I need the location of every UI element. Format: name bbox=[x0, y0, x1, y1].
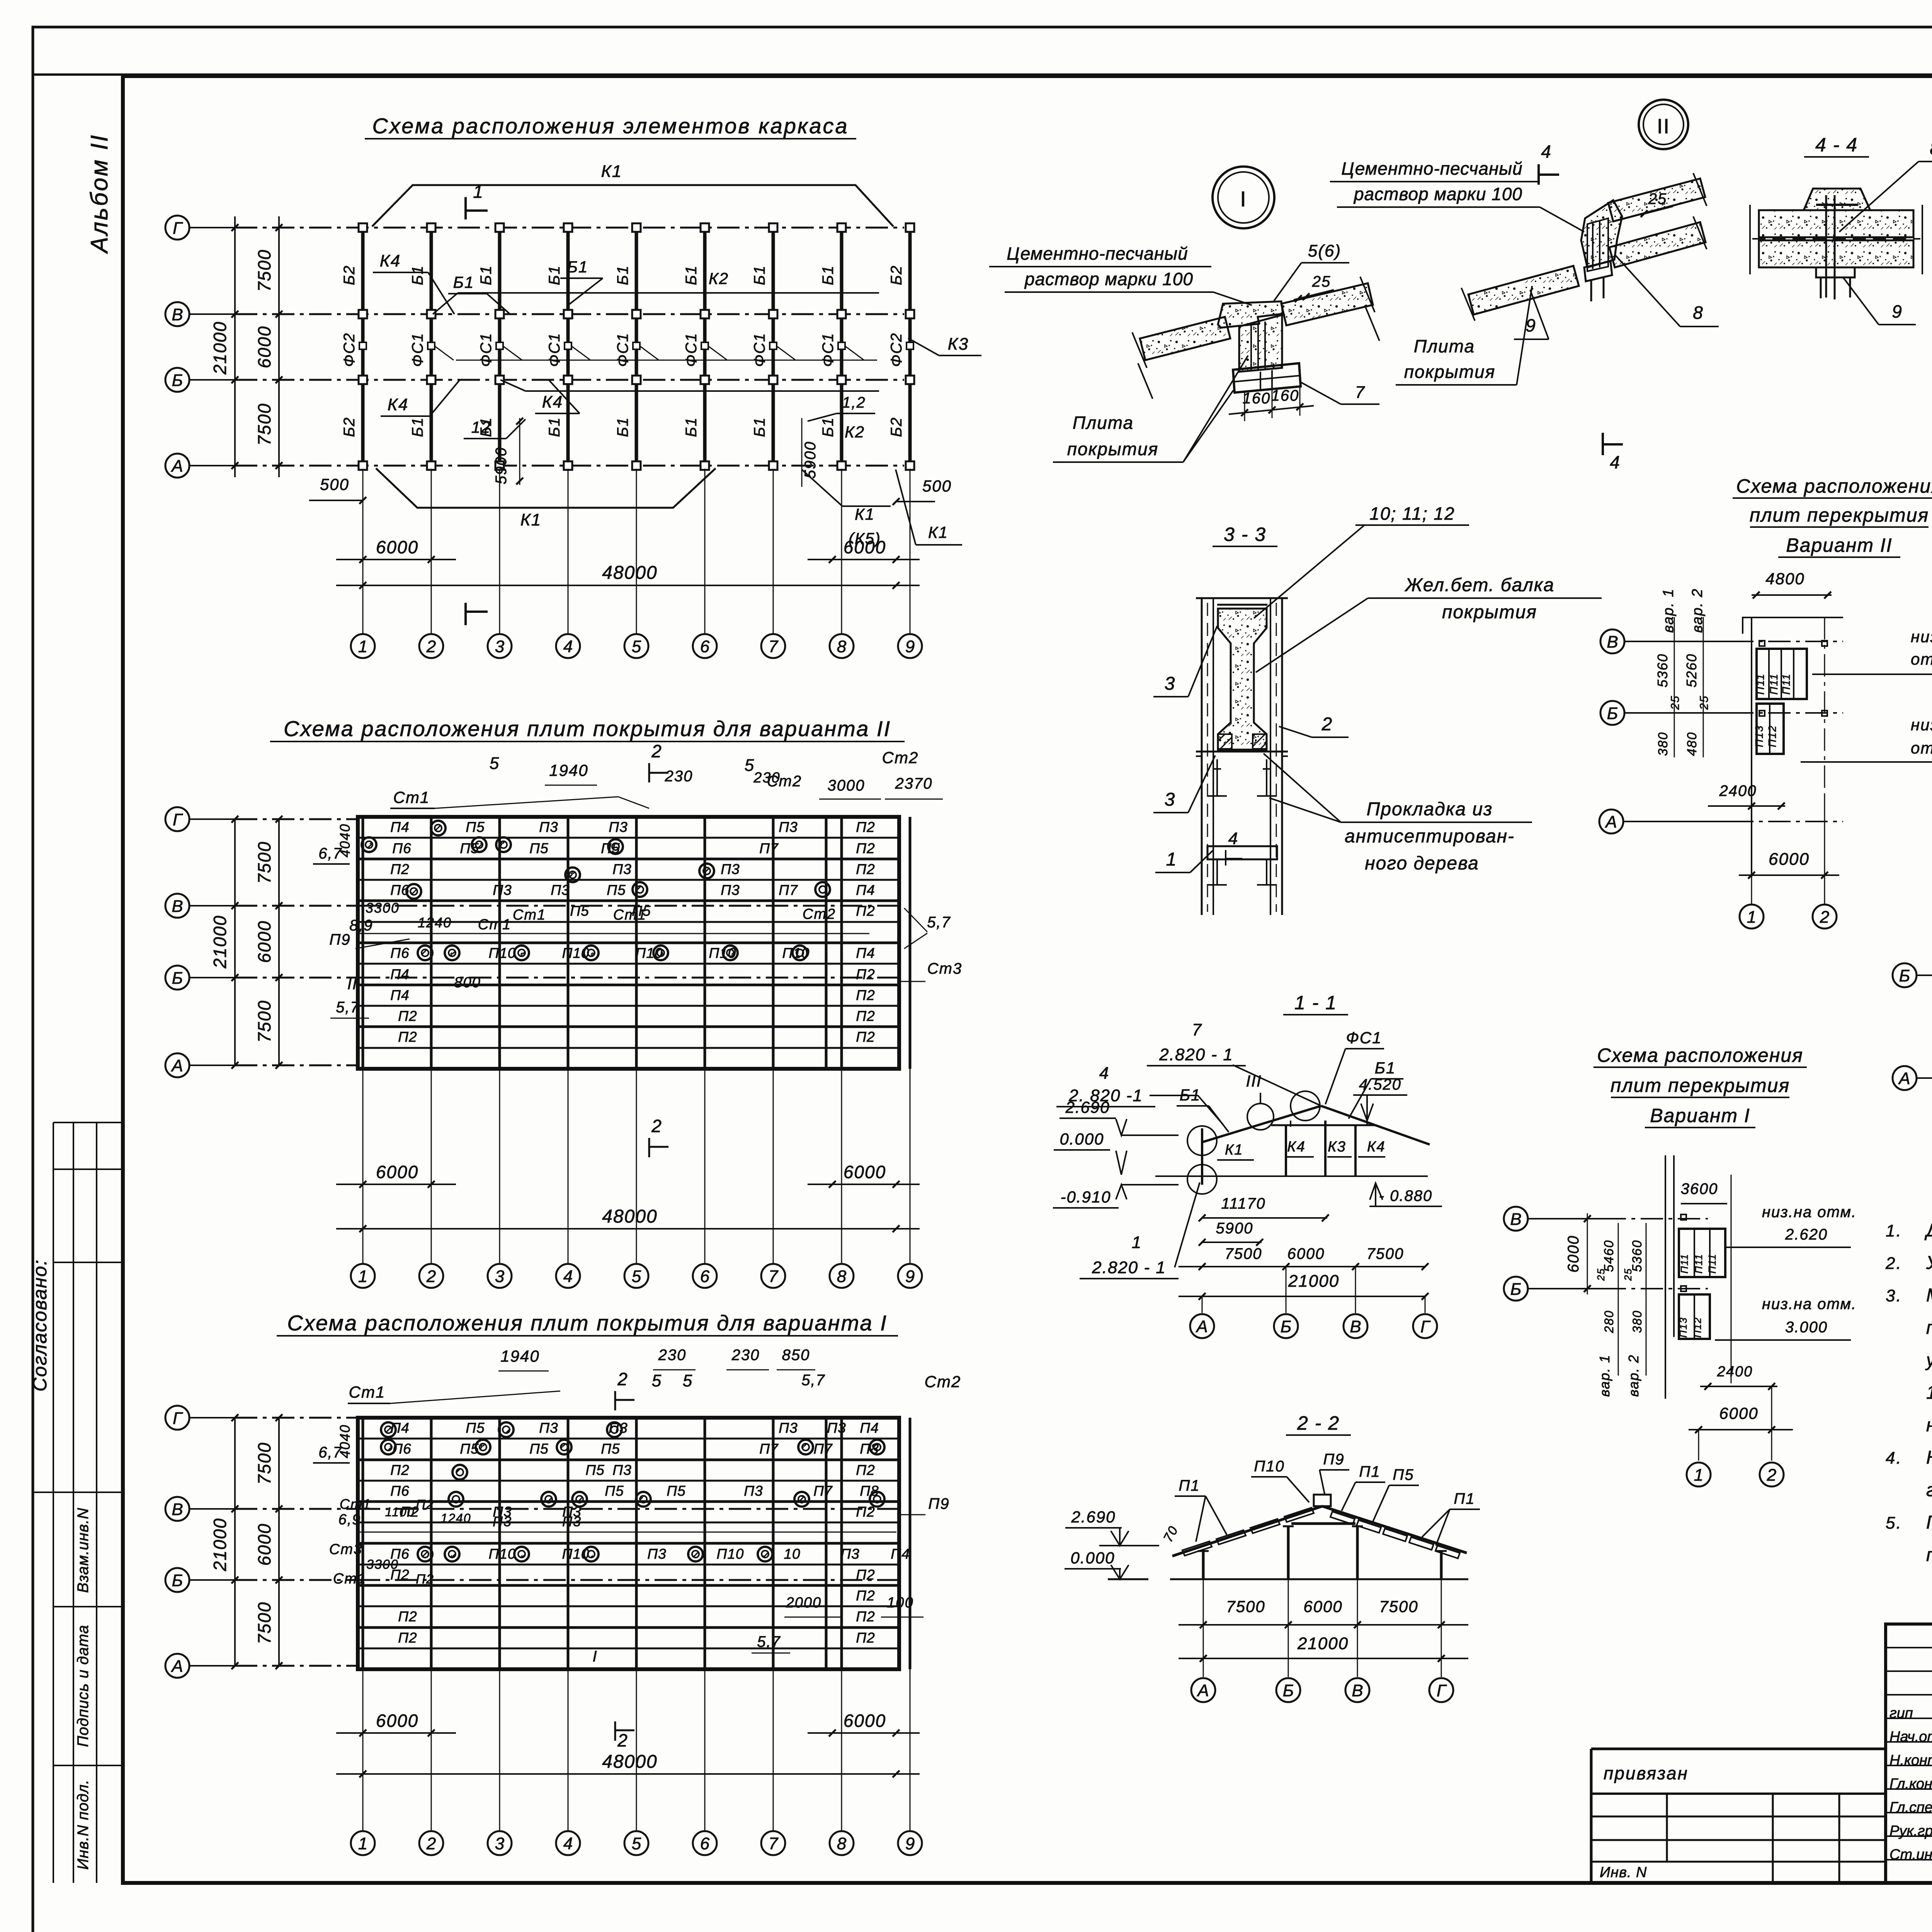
svg-text:Плита: Плита bbox=[1073, 413, 1134, 433]
svg-text:Схема расположения плит покрыт: Схема расположения плит покрытия для вар… bbox=[287, 1311, 888, 1335]
svg-text:5360: 5360 bbox=[1655, 653, 1670, 687]
svg-text:Схема расположения: Схема расположения bbox=[1736, 475, 1932, 497]
detail II mortar cap and joint bbox=[1581, 200, 1622, 271]
svg-text:1240: 1240 bbox=[440, 1511, 471, 1525]
svg-text:К2: К2 bbox=[709, 269, 729, 287]
section 3-3 label 3 lower bbox=[1153, 755, 1215, 813]
section 1-1 labels K bbox=[1217, 1139, 1386, 1160]
svg-text:2400: 2400 bbox=[1719, 782, 1757, 799]
svg-text:Согласовано:: Согласовано: bbox=[29, 1259, 51, 1392]
svg-text:48000: 48000 bbox=[602, 1752, 657, 1772]
svg-text:3.000: 3.000 bbox=[1785, 1319, 1828, 1336]
detail II label 9 bbox=[1514, 290, 1549, 339]
svg-text:П2: П2 bbox=[856, 966, 875, 982]
svg-text:В: В bbox=[172, 1500, 183, 1519]
svg-text:П3: П3 bbox=[612, 861, 631, 877]
section 1-1 label III bbox=[1246, 1072, 1274, 1130]
svg-text:ФС1: ФС1 bbox=[683, 333, 700, 367]
plan1 column lines with beams bbox=[359, 223, 914, 470]
small plan variant II rotated dims bbox=[1655, 588, 1711, 757]
svg-text:П2: П2 bbox=[398, 1630, 417, 1646]
svg-text:230: 230 bbox=[665, 768, 693, 785]
svg-text:1940: 1940 bbox=[500, 1347, 539, 1365]
svg-text:Б1: Б1 bbox=[683, 417, 700, 437]
svg-text:П5: П5 bbox=[529, 840, 548, 856]
svg-text:Плита: Плита bbox=[1414, 336, 1475, 356]
plan1 beam labels bbox=[341, 265, 905, 437]
svg-text:ФС1: ФС1 bbox=[1346, 1029, 1382, 1047]
svg-text:25: 25 bbox=[1669, 695, 1682, 710]
svg-text:низ. на: низ. на bbox=[1911, 628, 1932, 646]
svg-text:6000: 6000 bbox=[1303, 1597, 1342, 1616]
svg-text:10: 10 bbox=[784, 1546, 800, 1562]
svg-text:160: 160 bbox=[1271, 387, 1299, 404]
svg-text:1: 1 bbox=[358, 637, 367, 656]
title block grid bbox=[1886, 1624, 1932, 1883]
svg-text:11170: 11170 bbox=[1221, 1195, 1265, 1212]
svg-text:П4: П4 bbox=[390, 1420, 409, 1436]
svg-text:П13: П13 bbox=[1677, 1317, 1689, 1338]
svg-text:I: I bbox=[1240, 187, 1247, 211]
svg-text:6: 6 bbox=[700, 637, 710, 656]
svg-text:Ст1: Ст1 bbox=[349, 1383, 386, 1401]
svg-text:В: В bbox=[172, 305, 183, 324]
svg-text:Б1: Б1 bbox=[409, 265, 426, 285]
svg-text:Инв. N: Инв. N bbox=[1600, 1864, 1647, 1881]
svg-text:Нач.отд.: Нач.отд. bbox=[1889, 1729, 1932, 1745]
svg-text:П5: П5 bbox=[1393, 1466, 1414, 1483]
svg-text:5360: 5360 bbox=[1630, 1240, 1645, 1272]
svg-text:П3: П3 bbox=[609, 1420, 628, 1436]
svg-text:21000: 21000 bbox=[210, 1518, 230, 1571]
plan1 left dimension lines 21000 7500 6000 7500 bbox=[210, 216, 282, 477]
svg-text:7500: 7500 bbox=[1225, 1245, 1262, 1262]
small plan variant I notes bbox=[1715, 1204, 1857, 1340]
svg-text:П2: П2 bbox=[856, 1462, 875, 1478]
svg-text:2: 2 bbox=[651, 1116, 662, 1136]
svg-text:П6: П6 bbox=[390, 945, 409, 961]
svg-text:Ст2: Ст2 bbox=[882, 748, 919, 767]
svg-text:Б1: Б1 bbox=[546, 265, 563, 285]
svg-text:Гл.спец.: Гл.спец. bbox=[1889, 1799, 1932, 1816]
svg-text:7: 7 bbox=[1192, 1020, 1202, 1039]
section 2-2 dims bbox=[1179, 1579, 1468, 1665]
small plan variant II axes bbox=[1599, 629, 1843, 833]
section 2-2 labels bbox=[1161, 1451, 1480, 1546]
svg-text:3300: 3300 bbox=[366, 900, 400, 916]
svg-text:12: 12 bbox=[471, 418, 491, 436]
small plan variant II title bbox=[1733, 475, 1932, 557]
plan1 dim 500 right bbox=[893, 477, 952, 505]
svg-text:9: 9 bbox=[1892, 301, 1903, 321]
svg-text:П3: П3 bbox=[539, 1420, 558, 1436]
section 3-3 label 4 bbox=[1226, 829, 1242, 866]
svg-text:Б: Б bbox=[1607, 704, 1618, 723]
small plan variant I plates bbox=[1665, 1155, 1731, 1399]
svg-text:П10: П10 bbox=[636, 945, 663, 961]
svg-text:П1: П1 bbox=[1359, 1463, 1380, 1480]
svg-text:П4: П4 bbox=[390, 819, 409, 835]
svg-text:П10: П10 bbox=[489, 1546, 516, 1562]
svg-text:П11: П11 bbox=[1754, 673, 1766, 694]
section 3-3 label 3 upper bbox=[1153, 626, 1217, 697]
svg-text:5: 5 bbox=[652, 1371, 662, 1390]
svg-text:П5: П5 bbox=[585, 1462, 604, 1478]
svg-text:3: 3 bbox=[1165, 673, 1176, 694]
svg-text:Альбом II: Альбом II bbox=[86, 134, 113, 254]
svg-text:П2: П2 bbox=[856, 861, 875, 877]
svg-text:Указания по антикоррозионной: Указания по антикоррозионной защите см. … bbox=[1926, 1253, 1932, 1273]
plan1 building outline K1 bottom bbox=[376, 468, 716, 529]
plan1 bottom dimension lines bbox=[336, 469, 920, 634]
svg-text:П4: П4 bbox=[390, 987, 409, 1003]
detail II marker circle bbox=[1639, 100, 1688, 149]
small plan variant I left dims bbox=[1565, 1213, 1646, 1397]
section 2-2 ground line bbox=[1108, 1578, 1468, 1580]
svg-text:Цементно-песчаный: Цементно-песчаный bbox=[1007, 243, 1188, 264]
svg-text:7500: 7500 bbox=[1367, 1245, 1404, 1262]
svg-text:Ст3: Ст3 bbox=[927, 960, 962, 977]
plate plan column circles bbox=[351, 1831, 922, 1855]
svg-text:7500: 7500 bbox=[1226, 1597, 1265, 1616]
svg-text:Б: Б bbox=[1510, 1280, 1522, 1299]
svg-text:6,9: 6,9 bbox=[338, 1512, 361, 1528]
svg-text:К4: К4 bbox=[542, 393, 563, 412]
svg-text:П2: П2 bbox=[856, 1630, 875, 1646]
svg-text:П3: П3 bbox=[779, 819, 798, 835]
svg-text:П1: П1 bbox=[1179, 1477, 1200, 1494]
svg-text:6000: 6000 bbox=[1719, 1404, 1758, 1422]
svg-text:Взам.инв.N: Взам.инв.N bbox=[75, 1508, 92, 1593]
svg-text:2370: 2370 bbox=[895, 775, 933, 792]
svg-text:4: 4 bbox=[563, 637, 573, 656]
detail I bottom pad bbox=[1233, 363, 1301, 393]
svg-text:Вариант II: Вариант II bbox=[1786, 534, 1892, 556]
svg-text:8: 8 bbox=[1930, 138, 1932, 158]
svg-text:П5: П5 bbox=[601, 1441, 620, 1457]
section 1-1 elevation marks left bbox=[1053, 1098, 1179, 1208]
svg-text:Б1: Б1 bbox=[820, 265, 837, 285]
svg-text:21000: 21000 bbox=[1288, 1272, 1339, 1291]
svg-text:5260: 5260 bbox=[1684, 653, 1699, 687]
plate plan bottom dims bbox=[336, 1069, 920, 1264]
svg-text:4: 4 bbox=[1099, 1064, 1109, 1083]
small plan variant II notes low marks bbox=[1801, 628, 1932, 762]
small plan variant II dims top bbox=[1752, 570, 1832, 599]
svg-text:Схема расположения: Схема расположения bbox=[1597, 1044, 1803, 1066]
svg-text:2.690: 2.690 bbox=[1065, 1098, 1110, 1116]
svg-text:1: 1 bbox=[358, 1267, 367, 1286]
svg-text:ФС1: ФС1 bbox=[478, 333, 495, 367]
svg-text:А: А bbox=[1898, 1069, 1910, 1088]
svg-text:Ст2: Ст2 bbox=[803, 906, 836, 922]
svg-text:6000: 6000 bbox=[254, 920, 274, 963]
svg-text:Б1: Б1 bbox=[614, 417, 631, 437]
plate plan axis dash lines bbox=[210, 1414, 358, 1669]
detail I roof slabs bbox=[1132, 277, 1379, 399]
svg-text:П6: П6 bbox=[390, 882, 409, 898]
section 1-1 axis circles bbox=[1190, 1267, 1437, 1338]
section 2-2 elevations bbox=[1065, 1508, 1159, 1579]
svg-text:Б: Б bbox=[1281, 1317, 1292, 1336]
svg-text:К1: К1 bbox=[601, 162, 622, 181]
svg-text:раствор марки 100: раствор марки 100 bbox=[1353, 184, 1522, 204]
svg-text:вар. 2: вар. 2 bbox=[1626, 1354, 1641, 1397]
svg-text:2: 2 bbox=[617, 1369, 628, 1389]
svg-text:Г: Г bbox=[173, 1409, 183, 1428]
svg-text:К1: К1 bbox=[1225, 1142, 1243, 1158]
svg-text:ФС2: ФС2 bbox=[888, 333, 905, 367]
svg-text:6000: 6000 bbox=[844, 537, 886, 557]
svg-text:В: В bbox=[1352, 1681, 1363, 1700]
svg-text:П4: П4 bbox=[856, 945, 875, 961]
svg-text:4: 4 bbox=[563, 1267, 573, 1286]
svg-text:5: 5 bbox=[490, 754, 500, 773]
svg-text:Б1: Б1 bbox=[820, 417, 837, 437]
svg-text:Б1: Б1 bbox=[614, 265, 631, 285]
section 1-1 elevation -0.880 bbox=[1369, 1183, 1442, 1206]
svg-text:100: 100 bbox=[887, 1595, 913, 1611]
section 1-1 label B1 right bbox=[1349, 1059, 1403, 1119]
svg-text:Б1: Б1 bbox=[683, 265, 700, 285]
svg-text:Инв.N подл.: Инв.N подл. bbox=[75, 1779, 92, 1870]
plate plan extra annotations bbox=[313, 1347, 961, 1750]
detail I dim 25 bbox=[1294, 273, 1334, 302]
svg-text:1: 1 bbox=[1694, 1466, 1703, 1485]
detail II bolt bbox=[1584, 261, 1612, 301]
svg-text:П2: П2 bbox=[856, 1609, 875, 1624]
plate plan slab field bbox=[358, 1418, 910, 1669]
small plan variant II plates bbox=[1743, 617, 1843, 877]
svg-text:П10: П10 bbox=[709, 945, 736, 961]
svg-text:К4: К4 bbox=[388, 395, 408, 414]
section 2-2 axis circles bbox=[1191, 1625, 1453, 1702]
svg-text:4: 4 bbox=[1541, 141, 1552, 162]
small plan variant I axes bbox=[1504, 1207, 1708, 1301]
svg-text:антисептирован-: антисептирован- bbox=[1345, 826, 1515, 847]
svg-text:ФС2: ФС2 bbox=[341, 333, 358, 367]
svg-text:Схема расположения элементов к: Схема расположения элементов каркаса bbox=[372, 114, 849, 138]
section 3-3 lower ties bbox=[1196, 752, 1288, 885]
svg-text:П5: П5 bbox=[466, 1420, 485, 1436]
svg-text:-0.910: -0.910 bbox=[1060, 1188, 1111, 1206]
section 1-1 dims bbox=[1179, 1195, 1429, 1300]
svg-text:9: 9 bbox=[905, 1834, 915, 1853]
detail II label 8 bbox=[1615, 255, 1719, 327]
svg-text:380: 380 bbox=[1656, 732, 1670, 756]
plan1 dim 500 left bbox=[309, 475, 366, 504]
svg-text:П2: П2 bbox=[856, 987, 875, 1003]
svg-text:П6: П6 bbox=[392, 840, 411, 856]
svg-text:Б1: Б1 bbox=[1180, 1086, 1201, 1104]
svg-text:П9: П9 bbox=[329, 931, 350, 948]
svg-text:1: 1 bbox=[1132, 1233, 1142, 1252]
svg-text:6000: 6000 bbox=[1565, 1235, 1582, 1273]
svg-text:0.000: 0.000 bbox=[1070, 1549, 1115, 1567]
svg-text:5,7: 5,7 bbox=[801, 1372, 825, 1389]
svg-text:6,7: 6,7 bbox=[318, 1444, 342, 1461]
svg-text:3 - 3: 3 - 3 bbox=[1224, 524, 1266, 545]
svg-text:II: II bbox=[1657, 115, 1670, 138]
small plan variant II column circles bbox=[1740, 796, 1837, 929]
plate plan bottom dims bbox=[336, 1669, 920, 1831]
svg-text:2: 2 bbox=[426, 637, 436, 656]
svg-text:К1: К1 bbox=[855, 505, 875, 523]
svg-text:А: А bbox=[170, 1657, 183, 1676]
plate plan anchor circles bbox=[362, 821, 830, 960]
svg-text:Подпись и дата: Подпись и дата bbox=[75, 1625, 92, 1747]
plan1 axis lines bbox=[235, 228, 904, 466]
svg-text:1240: 1240 bbox=[418, 915, 452, 930]
svg-text:К1: К1 bbox=[928, 523, 948, 541]
section 2-2 roof plates bbox=[1182, 1508, 1460, 1558]
svg-text:160: 160 bbox=[1243, 390, 1271, 407]
svg-text:П2: П2 bbox=[390, 861, 409, 877]
plate plan axis circles bbox=[165, 807, 235, 1077]
svg-text:Цементно-песчаный: Цементно-песчаный bbox=[1341, 158, 1522, 179]
plate plan axis dash lines bbox=[210, 816, 358, 1069]
plan1 axis circles bbox=[165, 216, 235, 478]
svg-text:25: 25 bbox=[1595, 1268, 1607, 1281]
svg-text:П3: П3 bbox=[721, 882, 740, 898]
section 1-1 leader 4 2.820-1 bbox=[1056, 1064, 1223, 1124]
svg-text:48000: 48000 bbox=[602, 563, 657, 583]
section 3-3 label 1 bbox=[1155, 849, 1213, 872]
svg-text:Б1: Б1 bbox=[567, 258, 588, 276]
svg-text:Б1: Б1 bbox=[478, 265, 495, 285]
svg-text:Прокладка из: Прокладка из bbox=[1367, 799, 1493, 820]
svg-text:П5: П5 bbox=[607, 882, 626, 898]
svg-text:настоящего проекта.: настоящего проекта. bbox=[1926, 1415, 1932, 1435]
svg-text:Плиты , неоговоренные на с: Плиты , неоговоренные на схемах располож… bbox=[1926, 1512, 1932, 1533]
svg-text:П3: П3 bbox=[779, 1420, 798, 1436]
notes list bbox=[1885, 1220, 1932, 1565]
svg-text:указаниями серии 1.823-1, 1.86: указаниями серии 1.823-1, 1.862-2, 1.063… bbox=[1925, 1350, 1932, 1371]
svg-text:3300: 3300 bbox=[366, 1557, 399, 1572]
svg-text:6: 6 bbox=[700, 1267, 710, 1286]
svg-text:горизонтальное напряжение до: горизонтальное напряжение до 10 кг. bbox=[1926, 1480, 1932, 1500]
svg-text:5900: 5900 bbox=[1216, 1220, 1253, 1237]
svg-text:А: А bbox=[1195, 1317, 1207, 1336]
svg-text:8: 8 bbox=[837, 1834, 847, 1853]
detail 4-4 label 8 bbox=[1839, 138, 1932, 232]
svg-text:Б: Б bbox=[172, 969, 183, 988]
section 1-1 columns bbox=[1187, 1091, 1355, 1194]
svg-text:П11: П11 bbox=[1693, 1253, 1704, 1274]
svg-text:Б2: Б2 bbox=[888, 417, 905, 437]
svg-text:III: III bbox=[1246, 1072, 1262, 1090]
svg-text:5(6): 5(6) bbox=[1308, 241, 1341, 260]
svg-text:П4: П4 bbox=[390, 966, 409, 982]
svg-text:П2: П2 bbox=[390, 1462, 409, 1478]
small plan perekrytiya axis A bbox=[1893, 1066, 1932, 1090]
svg-text:П7: П7 bbox=[759, 1441, 779, 1457]
svg-text:5: 5 bbox=[632, 1834, 641, 1853]
svg-text:П3: П3 bbox=[493, 882, 512, 898]
svg-text:230: 230 bbox=[753, 770, 780, 786]
svg-text:П3: П3 bbox=[721, 861, 740, 877]
section 3-3 label 2 bbox=[1279, 714, 1349, 737]
svg-text:4.520: 4.520 bbox=[1359, 1076, 1401, 1093]
svg-text:К1: К1 bbox=[520, 510, 541, 529]
svg-text:3: 3 bbox=[1165, 789, 1176, 810]
svg-text:П12: П12 bbox=[1692, 1317, 1703, 1338]
svg-text:3000: 3000 bbox=[828, 777, 865, 794]
svg-text:380: 380 bbox=[1630, 1310, 1644, 1333]
svg-text:Ст2: Ст2 bbox=[925, 1372, 961, 1391]
svg-text:1: 1 bbox=[473, 182, 484, 202]
svg-text:П5: П5 bbox=[460, 840, 479, 856]
svg-text:П3: П3 bbox=[647, 1546, 666, 1562]
svg-text:покрытия: покрытия bbox=[1442, 602, 1537, 622]
svg-text:6,7: 6,7 bbox=[318, 845, 342, 862]
svg-text:П7: П7 bbox=[759, 840, 779, 856]
svg-text:500: 500 bbox=[922, 477, 952, 495]
svg-text:П4: П4 bbox=[860, 1420, 879, 1436]
svg-text:3: 3 bbox=[495, 1267, 505, 1286]
section 2-2 rafters bbox=[1172, 1495, 1467, 1556]
svg-text:Г: Г bbox=[173, 810, 183, 829]
svg-text:П10: П10 bbox=[1254, 1458, 1284, 1475]
svg-text:А: А bbox=[1196, 1681, 1209, 1700]
svg-text:П2: П2 bbox=[856, 1588, 875, 1604]
svg-text:Ст1: Ст1 bbox=[333, 1571, 366, 1587]
svg-text:6000: 6000 bbox=[1769, 850, 1810, 869]
svg-text:7500: 7500 bbox=[254, 1442, 274, 1485]
svg-text:7500: 7500 bbox=[254, 249, 274, 292]
plate plan slab field bbox=[358, 817, 910, 1069]
svg-text:7500: 7500 bbox=[254, 1602, 274, 1644]
detail I column joint bbox=[1239, 315, 1282, 372]
detail I label plita bbox=[1053, 355, 1248, 462]
svg-text:плит перекрытия: плит перекрытия bbox=[1750, 504, 1929, 526]
svg-text:низ. на: низ. на bbox=[1911, 716, 1932, 734]
svg-text:Б: Б bbox=[1283, 1681, 1294, 1700]
svg-text:П5: П5 bbox=[466, 819, 485, 835]
svg-text:7500: 7500 bbox=[254, 841, 274, 884]
svg-text:П3: П3 bbox=[827, 1420, 846, 1436]
svg-text:I: I bbox=[592, 1648, 597, 1665]
svg-text:Ст1: Ст1 bbox=[478, 917, 511, 933]
svg-text:П3: П3 bbox=[493, 1514, 512, 1529]
section 1-1 roof profile bbox=[1202, 1106, 1430, 1145]
svg-text:5: 5 bbox=[632, 1267, 641, 1286]
svg-text:ФС1: ФС1 bbox=[409, 333, 426, 367]
svg-text:Схема расположения плит покрыт: Схема расположения плит покрытия для вар… bbox=[284, 716, 891, 741]
svg-text:привязан: привязан bbox=[1604, 1763, 1689, 1783]
svg-text:25: 25 bbox=[1648, 190, 1667, 207]
svg-text:П4: П4 bbox=[856, 882, 875, 898]
svg-text:Б: Б bbox=[172, 1571, 183, 1590]
svg-text:9: 9 bbox=[905, 637, 915, 656]
svg-text:5: 5 bbox=[745, 756, 755, 775]
svg-text:П11: П11 bbox=[1679, 1253, 1690, 1274]
svg-text:25: 25 bbox=[1312, 273, 1331, 290]
detail 4-4 bolts bbox=[1816, 195, 1855, 299]
svg-text:П3: П3 bbox=[840, 1546, 859, 1562]
svg-text:7: 7 bbox=[769, 637, 779, 656]
svg-text:ного дерева: ного дерева bbox=[1365, 853, 1479, 874]
svg-text:230: 230 bbox=[658, 1347, 687, 1364]
svg-text:Нагрузки, действующие на поз: Нагрузки, действующие на позиции 1,2 ; в… bbox=[1926, 1447, 1932, 1468]
svg-text:- 0.880: - 0.880 bbox=[1379, 1187, 1433, 1204]
detail II section mark 4 bottom bbox=[1603, 433, 1623, 472]
svg-text:П10: П10 bbox=[489, 945, 516, 961]
svg-text:П5: П5 bbox=[529, 1441, 548, 1457]
section 1-1 leader 1 2.820-1 bbox=[1080, 1182, 1200, 1279]
section 1-1 label B1 left bbox=[1177, 1086, 1229, 1132]
plan1 building outline K1 top bbox=[372, 162, 893, 226]
